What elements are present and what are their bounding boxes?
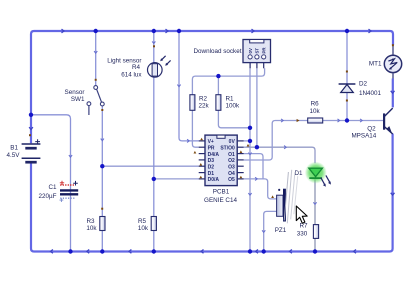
wire SW1 to chip pin D2 [102, 165, 198, 167]
current arrows on branch wires [69, 41, 362, 232]
svg-text:10k: 10k [310, 108, 321, 115]
microcontroller PCB1 GENIE C14 [194, 135, 250, 204]
svg-text:10k: 10k [86, 225, 97, 232]
resistor R7 330 [297, 222, 319, 238]
svg-text:614 lux: 614 lux [121, 72, 142, 79]
node bottom rail / PZ1 [262, 249, 266, 253]
svg-text:330: 330 [297, 231, 308, 238]
wire ST line from socket to chip ST/O0 [256, 68, 258, 147]
node SW1 branch / D2 input wire [100, 164, 104, 168]
svg-text:D1: D1 [208, 171, 215, 177]
wire R1 bottom to 0V line [218, 110, 250, 128]
svg-text:PR: PR [261, 47, 266, 54]
svg-text:1N4001: 1N4001 [359, 90, 382, 97]
sound waves from PZ1 [284, 170, 298, 224]
svg-text:V+: V+ [208, 139, 214, 145]
node top rail / LDR branch [152, 29, 156, 33]
wire diode D2 branch from top rail to base node [346, 31, 348, 121]
resistor R5 10k [138, 217, 156, 232]
node PR net / R1 [216, 74, 220, 78]
svg-text:10k: 10k [138, 225, 149, 232]
light sensor R4 (LDR) [107, 45, 170, 78]
resistor R3 10k [86, 208, 105, 232]
svg-text:R1: R1 [226, 95, 235, 102]
diode D2 1N4001 [339, 71, 382, 102]
motor MT1 [369, 44, 402, 78]
node bottom rail / 0V line [248, 249, 252, 253]
wire SW1 branch lower to bottom rail [101, 106, 103, 252]
node bottom rail / R3 [100, 249, 104, 253]
wire chip O5 row to piezo PZ1 upper terminal [244, 179, 277, 199]
LED D1 (lit, green glow) [294, 162, 330, 187]
svg-text:D0/A: D0/A [208, 177, 220, 183]
svg-text:MT1: MT1 [369, 60, 382, 67]
svg-text:4.5V: 4.5V [7, 152, 21, 159]
node bottom rail / R7 [313, 249, 317, 253]
svg-text:MPSA14: MPSA14 [351, 133, 376, 140]
current arrows on rails [29, 29, 394, 253]
node 0V line / chip 0V pin [248, 139, 252, 143]
node bottom rail / R5 [152, 249, 156, 253]
wire PR net: R2 top to download socket PR pin [192, 68, 264, 94]
svg-text:PR: PR [208, 146, 215, 152]
pin state marks [194, 138, 250, 179]
resistor R6 10k [297, 100, 323, 123]
wire R1 top to PR net [217, 76, 219, 95]
wire chip O1 down to PZ1 row [244, 154, 263, 179]
svg-text:R7: R7 [299, 222, 308, 229]
capacitor C1 220uF (electrolytic) [39, 181, 79, 202]
download socket [194, 40, 271, 69]
chip right pin stubs [237, 141, 244, 179]
transistor Q2 MPSA14 [351, 108, 392, 140]
wire V+ branch from top rail to chip pin V+ [179, 31, 199, 141]
node LDR branch / D0 input wire [152, 177, 156, 181]
svg-text:O1: O1 [228, 152, 235, 158]
svg-text:O3: O3 [228, 165, 235, 171]
node ST line / LED wire [255, 145, 259, 149]
svg-text:SW1: SW1 [71, 96, 85, 103]
svg-text:0V: 0V [248, 48, 253, 53]
svg-text:220µF: 220µF [39, 193, 57, 200]
svg-text:D1: D1 [294, 170, 303, 177]
wire LED D1 through R7 to bottom rail [314, 179, 316, 251]
svg-text:C1: C1 [48, 184, 57, 191]
wire LDR branch lower through R5 to bottom rail [153, 77, 155, 252]
node left rail / C1 branch [29, 113, 33, 117]
wire LDR branch upper [153, 31, 155, 63]
svg-text:PZ1: PZ1 [275, 227, 287, 234]
svg-text:D4/A: D4/A [208, 152, 220, 158]
node base wire / D2 diode [345, 118, 349, 122]
mouse cursor [296, 206, 307, 223]
svg-text:R2: R2 [199, 95, 208, 102]
svg-text:O2: O2 [228, 158, 235, 164]
node top rail / V+ branch [177, 29, 181, 33]
wire LDR divider to chip pin D0/A [154, 178, 199, 180]
node 0V line / R1 bottom [248, 126, 252, 130]
battery B1 4.5V [7, 134, 41, 162]
chip left pin stubs [199, 141, 205, 179]
svg-text:O4: O4 [228, 171, 235, 177]
wire ST/O0 row to LED D1 [244, 147, 315, 163]
svg-text:O5: O5 [228, 177, 235, 183]
wire battery + rail to C1 branch [31, 115, 71, 252]
node top rail / D2 branch [345, 29, 349, 33]
svg-text:D3: D3 [208, 158, 215, 164]
wire chip 0V pin to 0V line [244, 140, 250, 142]
svg-text:ST: ST [255, 48, 260, 54]
svg-text:B1: B1 [10, 144, 18, 151]
node bottom rail / C1 [68, 249, 72, 253]
wire main loop: top rail, left rail (to battery), right side [31, 31, 393, 252]
svg-text:GENIE C14: GENIE C14 [204, 197, 237, 204]
piezo sounder PZ1 [271, 189, 287, 234]
svg-text:100k: 100k [226, 102, 241, 109]
wire SW1 branch upper [95, 31, 97, 86]
resistor R2 22k [190, 95, 210, 111]
svg-text:0V: 0V [229, 139, 236, 145]
svg-text:ST/O0: ST/O0 [220, 146, 235, 152]
wire 0V line from socket to bottom rail [249, 68, 251, 251]
wire PZ1 lower terminal to bottom rail [264, 211, 277, 251]
svg-text:D2: D2 [208, 165, 215, 171]
wire R2 bottom to chip pin PR [192, 110, 198, 147]
svg-text:22k: 22k [199, 102, 210, 109]
svg-text:D2: D2 [359, 81, 368, 88]
resistor R1 100k [216, 95, 240, 111]
node top rail / SW1 branch [94, 29, 98, 33]
svg-text:R4: R4 [132, 64, 141, 71]
svg-text:R6: R6 [311, 100, 320, 107]
wire chip O2 to R6 and transistor base [244, 121, 384, 161]
switch SW1 (Sensor) [65, 79, 105, 115]
svg-text:Download socket: Download socket [194, 48, 242, 55]
svg-text:PCB1: PCB1 [213, 189, 230, 196]
